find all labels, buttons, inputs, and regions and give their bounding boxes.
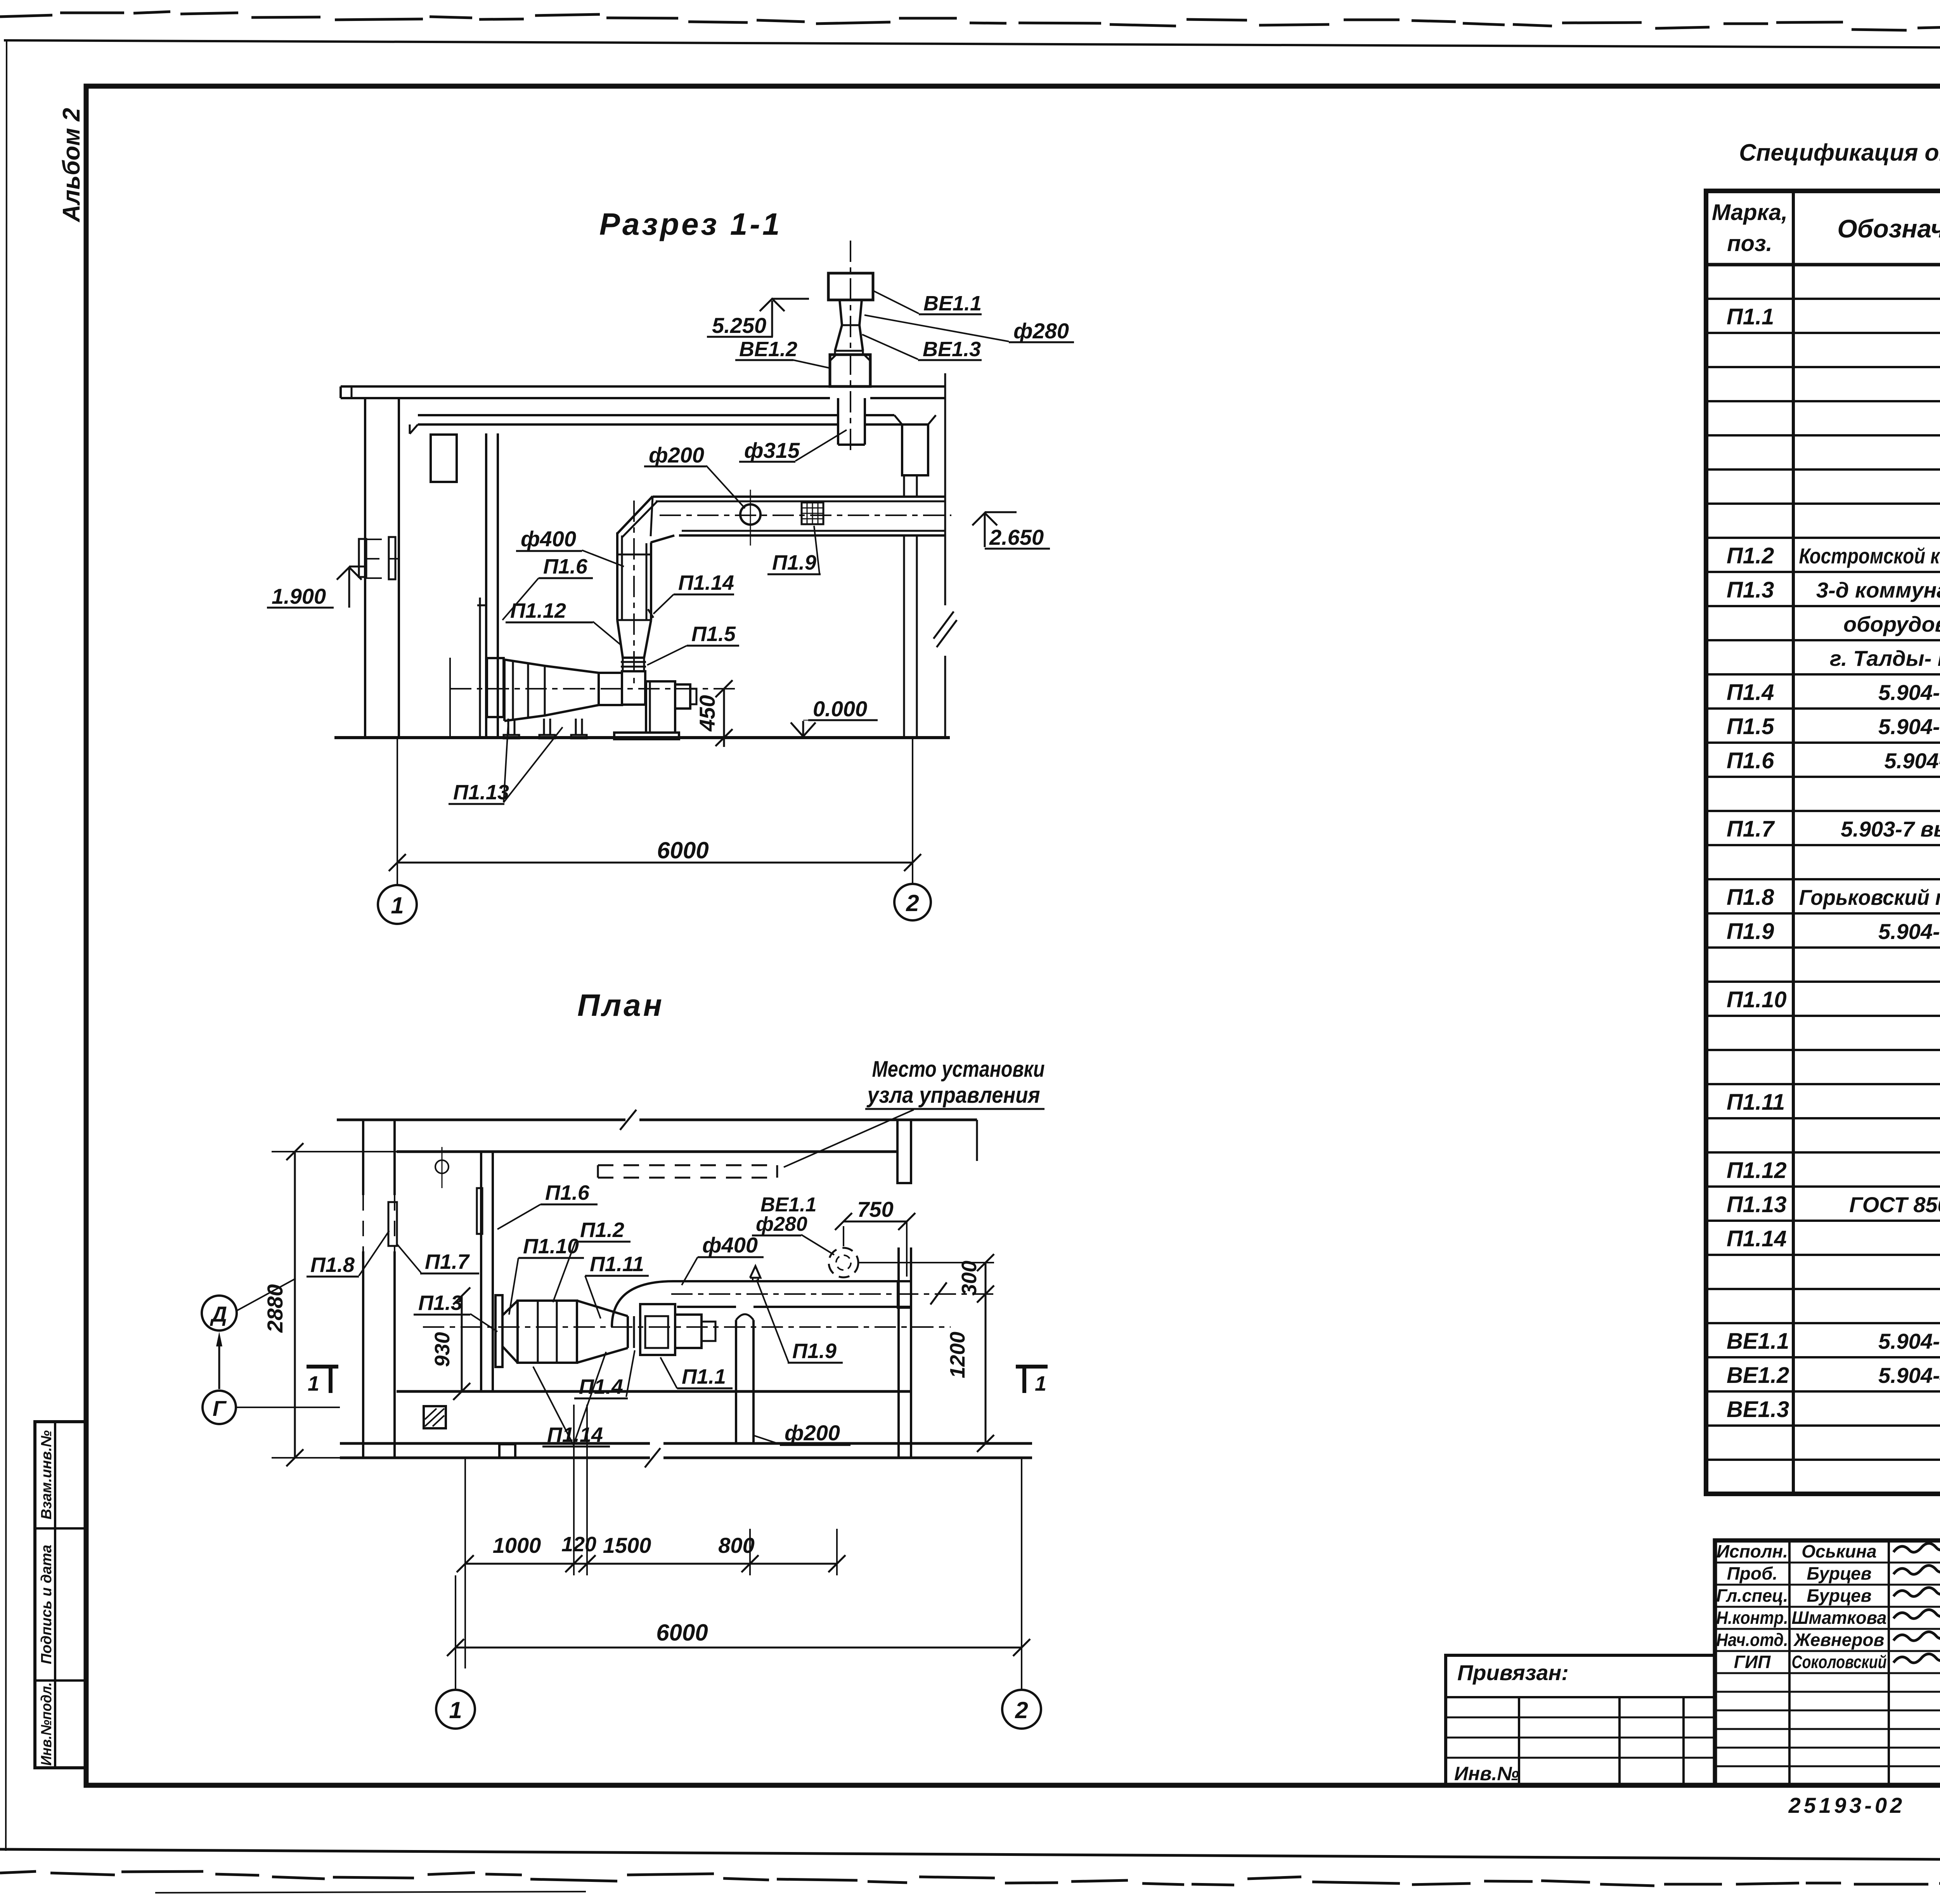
- flexible insert П1.5: [622, 658, 624, 671]
- svg-text:П1.8: П1.8: [1727, 885, 1774, 910]
- hanging column right: [902, 424, 928, 475]
- small bottom stray line: [155, 1892, 586, 1893]
- plan dimension 6000: [455, 1575, 456, 1690]
- horizontal duct centerline: [660, 515, 951, 516]
- svg-text:Соколовский: Соколовский: [1792, 1652, 1887, 1672]
- svg-text:Подпись и дата: Подпись и дата: [38, 1545, 55, 1664]
- svg-text:ф400: ф400: [521, 527, 576, 551]
- horizontal duct bottom wall: [679, 534, 945, 537]
- svg-text:Горьковский тех.з-д N1: Горьковский тех.з-д N1: [1799, 885, 1940, 910]
- svg-text:Бурцев: Бурцев: [1807, 1585, 1872, 1606]
- left margin strip box: [35, 1422, 86, 1768]
- top rule line: [4, 40, 1940, 50]
- duct elbow: [617, 496, 653, 534]
- svg-text:П1.13: П1.13: [453, 781, 509, 804]
- svg-text:П1.11: П1.11: [590, 1253, 644, 1276]
- spec table column lines: [1792, 191, 1795, 1494]
- dimension 2880 plan: [272, 1151, 397, 1152]
- svg-text:5.904-45: 5.904-45: [1878, 1363, 1940, 1388]
- hatched pier: [424, 1406, 446, 1428]
- bottom rule line: [0, 1849, 1940, 1862]
- svg-text:П1.9: П1.9: [792, 1339, 837, 1363]
- svg-text:1: 1: [308, 1372, 319, 1395]
- axis circle Д: [202, 1296, 237, 1331]
- beam left end fillet: [410, 424, 418, 434]
- svg-text:Инв.№: Инв.№: [1454, 1763, 1519, 1784]
- svg-text:ф280: ф280: [756, 1213, 807, 1235]
- axis circle Г: [203, 1391, 236, 1424]
- svg-text:П1.6: П1.6: [543, 555, 588, 578]
- svg-text:2: 2: [906, 890, 919, 916]
- svg-text:Альбом 2: Альбом 2: [58, 108, 85, 223]
- svg-text:ф400: ф400: [702, 1233, 758, 1257]
- duct elbow arc plan: [612, 1281, 673, 1327]
- svg-text:П1.12: П1.12: [1727, 1158, 1787, 1183]
- svg-text:Проб.: Проб.: [1727, 1563, 1778, 1583]
- svg-text:Костромской калориф.з-д: Костромской калориф.з-д: [1799, 544, 1940, 568]
- svg-text:Г: Г: [213, 1396, 227, 1421]
- svg-text:П1.12: П1.12: [510, 599, 566, 622]
- svg-text:П1.4: П1.4: [579, 1375, 623, 1398]
- svg-text:П1.2: П1.2: [1727, 543, 1774, 568]
- ceiling beam top line: [418, 414, 838, 416]
- svg-text:ВЕ1.1: ВЕ1.1: [1727, 1329, 1789, 1354]
- svg-text:ф200: ф200: [785, 1421, 840, 1445]
- right wall outer line with break: [944, 373, 946, 605]
- svg-text:оборудования: оборудования: [1843, 612, 1940, 636]
- floor line: [334, 736, 950, 739]
- svg-text:П1.1: П1.1: [682, 1365, 726, 1388]
- svg-text:2880: 2880: [263, 1284, 287, 1333]
- svg-text:ф315: ф315: [744, 438, 800, 463]
- dimension 750 plan: [844, 1221, 907, 1223]
- svg-text:ф280: ф280: [1013, 319, 1069, 343]
- duct joint line: [617, 554, 651, 556]
- plan duct centerline: [671, 1293, 993, 1295]
- svg-text:П1.5: П1.5: [1727, 714, 1774, 739]
- hermetic door leaf on partition: [479, 598, 481, 738]
- svg-text:Н.контр.: Н.контр.: [1717, 1608, 1788, 1628]
- spec table outer border: [1706, 191, 1940, 1494]
- svg-text:1500: 1500: [603, 1533, 651, 1558]
- roof slab bottom chord: [341, 397, 830, 399]
- svg-text:ГИП: ГИП: [1734, 1652, 1771, 1672]
- transition П1.12: [617, 620, 651, 658]
- roof passage unit ВЕ1.2: [830, 355, 870, 386]
- svg-text:Д: Д: [210, 1302, 227, 1326]
- svg-text:1: 1: [1035, 1372, 1046, 1395]
- svg-text:800: 800: [718, 1533, 754, 1558]
- svg-text:750: 750: [857, 1197, 893, 1221]
- svg-text:6000: 6000: [656, 1620, 708, 1646]
- duct vertical centerline: [633, 501, 635, 687]
- svg-text:Привязан:: Привязан:: [1457, 1660, 1569, 1685]
- spec table header bottom: [1706, 263, 1940, 267]
- dimension 930 plan: [461, 1296, 463, 1391]
- louver П1.8 leaf: [388, 1202, 397, 1246]
- svg-text:1200: 1200: [946, 1332, 969, 1378]
- svg-text:ВЕ1.3: ВЕ1.3: [1727, 1397, 1789, 1422]
- privyazan table: [1446, 1655, 1715, 1785]
- right wall pier: [898, 1281, 911, 1308]
- fan motor plan: [675, 1315, 702, 1348]
- top right outer corner stub: [976, 1120, 978, 1161]
- svg-text:Нач.отд.: Нач.отд.: [1717, 1630, 1788, 1650]
- svg-text:П1.6: П1.6: [545, 1181, 590, 1204]
- svg-text:6000: 6000: [657, 837, 708, 863]
- svg-text:П1.13: П1.13: [1727, 1192, 1787, 1217]
- plan inner top wall: [397, 1150, 896, 1153]
- torn paper edge bottom: [0, 1871, 1940, 1894]
- svg-text:ВЕ1.2: ВЕ1.2: [739, 338, 797, 361]
- svg-text:5.904-4: 5.904-4: [1885, 748, 1940, 773]
- axis circle 1 plan: [436, 1690, 475, 1729]
- svg-text:поз.: поз.: [1727, 231, 1772, 256]
- axis 2 extension line: [912, 738, 913, 884]
- svg-text:П1.4: П1.4: [1727, 680, 1774, 705]
- svg-text:5.904-51: 5.904-51: [1878, 1329, 1940, 1353]
- axis circle 1 section: [378, 885, 417, 924]
- axis circle 2 section: [894, 884, 931, 920]
- plan bottom inner wall: [397, 1390, 911, 1393]
- svg-text:г. Талды- Курган: г. Талды- Курган: [1830, 646, 1940, 670]
- svg-text:П1.1: П1.1: [1727, 304, 1774, 329]
- plan door П1.6 leaf: [477, 1188, 482, 1234]
- svg-text:П1.8: П1.8: [310, 1253, 355, 1277]
- svg-text:120: 120: [561, 1533, 596, 1556]
- svg-text:5.904-50: 5.904-50: [1878, 919, 1940, 944]
- svg-text:ВЕ1.3: ВЕ1.3: [923, 338, 981, 361]
- plan train centerline: [423, 1326, 951, 1328]
- svg-text:П1.6: П1.6: [1727, 748, 1774, 773]
- wall flange of air intake: [487, 658, 504, 717]
- svg-text:0.000: 0.000: [813, 696, 867, 721]
- plan chain dimension line: [465, 1563, 837, 1565]
- axis circle 2 plan: [1002, 1690, 1041, 1729]
- svg-text:3-д коммунального: 3-д коммунального: [1816, 578, 1940, 602]
- fan inlet collar: [599, 673, 622, 705]
- fan motor: [675, 684, 690, 709]
- svg-text:450: 450: [695, 695, 719, 731]
- left page edge line: [6, 41, 7, 1851]
- svg-text:Гл.спец.: Гл.спец.: [1717, 1585, 1788, 1606]
- plan right wall: [897, 1247, 900, 1458]
- plan dim extension lines: [464, 1459, 466, 1668]
- column marker circle: [435, 1160, 449, 1173]
- svg-text:1: 1: [449, 1697, 462, 1723]
- svg-text:ВЕ1.1: ВЕ1.1: [923, 292, 982, 315]
- svg-text:П1.10: П1.10: [523, 1235, 579, 1258]
- deflector ВЕ1.1: [828, 273, 873, 300]
- svg-text:П1.9: П1.9: [772, 551, 816, 574]
- air damper and heater train top edge: [504, 660, 599, 673]
- svg-text:Разрез 1-1: Разрез 1-1: [599, 207, 782, 241]
- grille П1.9 hatched box: [802, 502, 823, 524]
- svg-text:25193-02: 25193-02: [1788, 1793, 1905, 1817]
- dimension 450: [723, 689, 725, 747]
- svg-text:1: 1: [391, 892, 404, 918]
- svg-text:Взам.инв.№: Взам.инв.№: [38, 1430, 55, 1519]
- contracting cone: [577, 1301, 628, 1316]
- svg-text:Спецификация отопительно-венти: Спецификация отопительно-вентиляционного…: [1739, 139, 1940, 166]
- plan partition wall: [480, 1152, 482, 1391]
- grille П1.9 symbol plan: [750, 1266, 760, 1278]
- deflector ВЕ1.1 plan dashed circles: [829, 1248, 858, 1277]
- svg-text:П1.5: П1.5: [691, 622, 736, 646]
- svg-text:П1.14: П1.14: [678, 571, 734, 594]
- dimension 300 plan: [985, 1263, 987, 1294]
- vertical duct walls: [616, 532, 618, 620]
- exhaust stack centerline: [850, 241, 851, 455]
- partition wall: [485, 433, 487, 738]
- svg-text:П1.9: П1.9: [1727, 919, 1774, 944]
- svg-text:5.903-7 вып.0,1: 5.903-7 вып.0,1: [1841, 817, 1940, 841]
- plan bottom wall band: [340, 1442, 650, 1445]
- expanding cone: [502, 1301, 518, 1315]
- transition ВЕ1.3: [835, 325, 842, 351]
- svg-text:300: 300: [958, 1261, 981, 1296]
- top right pier: [897, 1120, 911, 1183]
- right window jamb lines: [903, 475, 905, 495]
- svg-text:узла управления: узла управления: [866, 1083, 1040, 1108]
- svg-text:П1.10: П1.10: [1727, 987, 1787, 1012]
- hanging bracket left: [431, 435, 457, 482]
- signature table: [1788, 1540, 1791, 1785]
- horizontal duct top wall: [653, 495, 945, 498]
- svg-text:Шматкова: Шматкова: [1792, 1608, 1887, 1628]
- deflector neck: [840, 300, 842, 325]
- plan duct ф400: [673, 1280, 911, 1282]
- svg-text:П1.7: П1.7: [1727, 816, 1775, 842]
- plan supply train: damper plate П1.3: [495, 1295, 502, 1367]
- svg-text:Оськина: Оськина: [1801, 1541, 1876, 1561]
- svg-text:ГОСТ 8509-86: ГОСТ 8509-86: [1849, 1192, 1940, 1217]
- fan casing: [646, 681, 675, 733]
- title block outer border: [1715, 1540, 1940, 1785]
- fan П1.1 plan: [640, 1304, 675, 1355]
- train centerline: [450, 688, 735, 690]
- spec table row lines: [1706, 298, 1940, 300]
- north arrow between axes: [218, 1338, 220, 1389]
- left wall column: [364, 398, 366, 738]
- svg-text:П1.14: П1.14: [547, 1423, 603, 1447]
- section cut mark right: [1016, 1365, 1048, 1369]
- svg-text:П1.7: П1.7: [425, 1250, 470, 1273]
- train bottom edge: [504, 705, 599, 721]
- dimension 1200 plan: [985, 1294, 987, 1443]
- branch duct ф200 plan: [735, 1320, 737, 1443]
- flexible insert П1.4 plan: [627, 1316, 629, 1348]
- svg-text:930: 930: [431, 1332, 454, 1367]
- branch circle ф200: [740, 504, 760, 525]
- duct stub below roof: [837, 398, 839, 445]
- plan top wall: [337, 1119, 625, 1121]
- axis 1 extension line: [397, 738, 398, 885]
- section cut mark left: [307, 1365, 338, 1369]
- ceiling beam bottom line: [418, 423, 838, 426]
- svg-text:Жевнеров: Жевнеров: [1793, 1630, 1885, 1650]
- svg-text:П1.11: П1.11: [1727, 1090, 1785, 1115]
- svg-text:1.900: 1.900: [272, 584, 326, 608]
- svg-text:П1.14: П1.14: [1727, 1226, 1787, 1251]
- unit support legs: [508, 719, 509, 735]
- left wall louver detail: [359, 539, 366, 577]
- svg-text:5.250: 5.250: [712, 313, 766, 338]
- svg-text:Бурцев: Бурцев: [1807, 1563, 1872, 1583]
- heater box: [518, 1301, 577, 1363]
- svg-text:План: План: [577, 988, 664, 1022]
- svg-text:ВЕ1.2: ВЕ1.2: [1727, 1363, 1789, 1388]
- svg-text:Инв.№подл.: Инв.№подл.: [38, 1682, 55, 1766]
- svg-text:ф200: ф200: [649, 443, 704, 467]
- svg-text:П1.2: П1.2: [580, 1218, 624, 1242]
- svg-text:Обозначение: Обозначение: [1837, 214, 1940, 243]
- torn paper edge top: [0, 12, 1940, 34]
- svg-text:Исполн.: Исполн.: [1717, 1541, 1788, 1561]
- svg-text:2: 2: [1015, 1697, 1028, 1723]
- fan base frame: [614, 733, 679, 739]
- bottom wall pier: [499, 1444, 515, 1458]
- roof slab left cap: [339, 386, 342, 398]
- svg-text:2.650: 2.650: [989, 525, 1044, 549]
- fan inlet box: [622, 671, 645, 705]
- svg-text:Место установки: Место установки: [872, 1057, 1045, 1082]
- svg-text:5.904-38: 5.904-38: [1878, 714, 1940, 739]
- heater ribs: [512, 661, 514, 720]
- dimension line 6000 section: [397, 862, 913, 864]
- svg-text:П1.3: П1.3: [1727, 577, 1774, 603]
- control unit dashed bar: [597, 1165, 599, 1178]
- svg-text:1000: 1000: [493, 1533, 541, 1558]
- plan left wall: [362, 1120, 364, 1195]
- door leaf in room: [449, 658, 451, 738]
- roof slab top chord: [341, 385, 830, 388]
- svg-text:5.904-38: 5.904-38: [1878, 680, 1940, 705]
- svg-text:Марка,: Марка,: [1712, 200, 1788, 225]
